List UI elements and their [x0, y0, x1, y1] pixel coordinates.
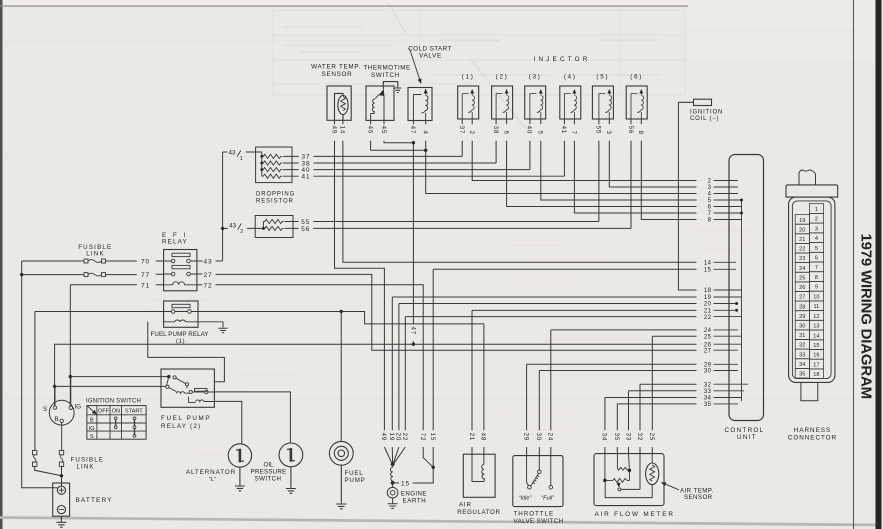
- svg-text:WATER TEMP.: WATER TEMP.: [311, 64, 361, 71]
- resistor R40: [262, 168, 282, 172]
- wire 71/IG vertical: [69, 285, 72, 406]
- svg-text:25: 25: [799, 276, 805, 282]
- labels 37 38 40 41: [301, 154, 310, 181]
- lower wire number labels (rotated): [380, 433, 655, 441]
- svg-text:18: 18: [704, 288, 712, 294]
- label fuel pump relay 2: [161, 415, 211, 430]
- wire 5 + row 5: [541, 119, 697, 200]
- fusible link F3 (left): [33, 450, 62, 475]
- svg-text:AIR FLOW METER: AIR FLOW METER: [595, 511, 675, 518]
- battery feed vertical: [20, 261, 57, 488]
- svg-text:32: 32: [636, 433, 643, 441]
- ignition coil symbol: [678, 99, 711, 105]
- svg-text:20: 20: [704, 302, 712, 308]
- svg-text:6: 6: [815, 256, 818, 262]
- wire 15 + row 15: [413, 269, 697, 483]
- svg-text:5: 5: [815, 246, 818, 252]
- svg-text:SENSOR: SENSOR: [322, 71, 353, 78]
- svg-text:ON: ON: [112, 408, 120, 414]
- svg-text:14: 14: [704, 261, 712, 267]
- svg-text:UNIT: UNIT: [737, 434, 757, 441]
- svg-text:4: 4: [708, 192, 712, 198]
- svg-text:B: B: [90, 418, 94, 424]
- svg-text:26: 26: [799, 285, 805, 291]
- dropping resistor block 1: [256, 147, 565, 183]
- wire 35 + row 35: [617, 404, 696, 454]
- svg-text:ENGINE: ENGINE: [401, 490, 427, 497]
- svg-text:S: S: [90, 434, 94, 440]
- label dropping resistor: [256, 192, 295, 205]
- svg-text:11: 11: [813, 304, 819, 310]
- label 43/2: [229, 222, 243, 235]
- injector 1: [458, 86, 479, 119]
- FP relay 1 coil to FP relay 2 link: [148, 322, 225, 382]
- wire 70 + fuse F1: [22, 259, 164, 263]
- wire 49: [335, 120, 385, 430]
- alternator G1: [228, 444, 251, 491]
- wire 38: [495, 119, 497, 163]
- resistor R41: [262, 174, 282, 178]
- label EFI relay: [162, 232, 188, 246]
- svg-text:24: 24: [799, 266, 805, 272]
- S feed to FP relay 2: [55, 385, 166, 387]
- label harness connector: [788, 427, 837, 442]
- junction dots on bus: [260, 155, 263, 158]
- injector 6: [626, 86, 647, 119]
- label cold start valve + leader: [408, 45, 451, 59]
- bottom scan band: [0, 518, 883, 526]
- label alternator: [186, 469, 236, 483]
- page left dark edge: [0, 0, 3, 529]
- svg-text:“Idle”: “Idle”: [519, 495, 533, 501]
- svg-text:33: 33: [624, 433, 631, 441]
- battery BT1: [53, 483, 70, 527]
- control unit U-CU: [729, 155, 764, 421]
- wiper arrow + circle: [617, 482, 620, 487]
- junction 47-row26: [412, 343, 415, 346]
- label air temp sensor + leader: [662, 483, 679, 490]
- svg-text:14: 14: [339, 126, 346, 134]
- air regulator U-AR: [463, 454, 495, 497]
- wire 56: [630, 119, 632, 228]
- svg-text:(3): (3): [529, 74, 542, 81]
- row 37 out: [283, 155, 462, 157]
- label fuel pump relay 1: [151, 331, 209, 345]
- svg-text:RELAY: RELAY: [162, 239, 188, 246]
- fuel pump M1: [329, 441, 353, 508]
- svg-text:27: 27: [204, 272, 213, 279]
- svg-text:77: 77: [141, 272, 150, 279]
- svg-text:VALVE: VALVE: [419, 52, 442, 59]
- control unit pin numbers: [704, 179, 712, 408]
- resistor R37: [262, 154, 282, 158]
- label fuel pump: [345, 470, 366, 484]
- lower resistor: [605, 472, 630, 482]
- throttle valve switch SW-TVS: [513, 456, 563, 507]
- water temp sensor U-WTS: [327, 86, 351, 120]
- oil pressure switch S-OIL: [279, 443, 303, 493]
- labels Idle Full: [519, 495, 556, 501]
- svg-text:21: 21: [704, 309, 712, 315]
- svg-text:45: 45: [380, 126, 387, 134]
- svg-text:INJECTOR: INJECTOR: [534, 56, 591, 63]
- svg-text:PUMP: PUMP: [345, 477, 366, 484]
- wire 71: [70, 284, 163, 286]
- engine earth ring: [387, 487, 398, 498]
- svg-text:(4): (4): [564, 74, 577, 81]
- svg-text:IG: IG: [89, 426, 95, 432]
- row 41 out: [283, 175, 565, 177]
- top border line: [0, 5, 688, 7]
- svg-text:23: 23: [799, 256, 805, 262]
- wire 48 drop: [483, 324, 485, 454]
- svg-text:FUEL PUMP: FUEL PUMP: [161, 415, 211, 422]
- svg-text:7: 7: [570, 131, 577, 135]
- thermotime switch U-TTS: [366, 82, 398, 121]
- svg-text:40: 40: [526, 126, 533, 134]
- svg-text:4: 4: [815, 236, 818, 242]
- svg-text:30: 30: [799, 324, 805, 330]
- wire 14 + row 14: [343, 120, 697, 262]
- row 40 out: [283, 169, 530, 171]
- wire 33 + row 33: [629, 391, 697, 454]
- svg-text:1: 1: [815, 207, 818, 213]
- svg-text:CONNECTOR: CONNECTOR: [788, 434, 837, 441]
- label throttle valve switch: [514, 510, 564, 525]
- svg-text:28: 28: [799, 304, 805, 310]
- svg-text:5: 5: [708, 198, 712, 204]
- wire 55: [598, 119, 600, 222]
- svg-text:32: 32: [704, 382, 712, 388]
- fuel pump relay 1 U-FPR1: [164, 301, 223, 327]
- svg-text:20: 20: [799, 227, 805, 233]
- svg-text:2: 2: [240, 229, 243, 235]
- junction 45-47: [412, 141, 415, 144]
- svg-text:4: 4: [422, 131, 429, 135]
- svg-text:DROPPING: DROPPING: [256, 192, 295, 198]
- svg-text:13: 13: [813, 324, 819, 330]
- label control unit: [725, 427, 765, 441]
- resistor R55: [263, 219, 283, 223]
- svg-text:27: 27: [704, 348, 712, 354]
- svg-text:22: 22: [401, 433, 408, 441]
- svg-text:33: 33: [704, 389, 712, 395]
- svg-text:3: 3: [708, 185, 712, 191]
- label 43/1: [229, 150, 243, 162]
- label water temp sensor: [311, 64, 361, 79]
- row 38 out: [283, 162, 496, 164]
- row 55 out: [285, 221, 599, 223]
- wire 49 tail: [384, 447, 392, 464]
- svg-text:15: 15: [813, 343, 819, 349]
- wire ignition coil to row 18: [678, 102, 696, 290]
- svg-text:(1): (1): [462, 74, 475, 81]
- svg-text:S: S: [43, 406, 47, 413]
- svg-text:34: 34: [601, 433, 608, 441]
- svg-text:49: 49: [330, 126, 337, 134]
- wire 41: [563, 119, 565, 176]
- svg-text:COIL (−): COIL (−): [690, 116, 719, 122]
- IG feed to FP relay 2: [70, 376, 169, 378]
- svg-text:15: 15: [704, 268, 712, 274]
- wire 32 + row 32: [640, 384, 697, 454]
- svg-text:(5): (5): [596, 74, 609, 81]
- ground (thermotime): [394, 88, 401, 93]
- svg-text:41: 41: [301, 174, 310, 181]
- svg-text:AIR: AIR: [459, 501, 472, 508]
- svg-text:PRESSURE: PRESSURE: [251, 469, 287, 476]
- wire 3 + row 3: [609, 119, 696, 187]
- svg-text:19: 19: [799, 218, 805, 224]
- svg-text:“L”: “L”: [209, 477, 216, 483]
- S wire vertical + row 26 long line: [53, 344, 697, 406]
- svg-text:72: 72: [204, 283, 213, 290]
- fuel pump relay 2 U-FPR2: [161, 369, 214, 407]
- svg-text:31: 31: [799, 333, 805, 339]
- svg-text:OIL: OIL: [264, 462, 275, 469]
- control unit pin stubs: [714, 181, 749, 404]
- svg-text:22: 22: [704, 315, 712, 321]
- wire 7 + row 7: [574, 119, 696, 213]
- right black bar: [876, 0, 882, 529]
- svg-text:43: 43: [204, 259, 213, 266]
- injector 2: [492, 86, 513, 119]
- svg-text:1979 WIRING DIAGRAM: 1979 WIRING DIAGRAM: [858, 234, 875, 399]
- svg-text:35: 35: [799, 372, 805, 378]
- svg-text:1: 1: [240, 156, 243, 162]
- harness connector J1: [786, 170, 838, 401]
- injector 5: [592, 86, 613, 119]
- label ignition coil: [690, 109, 723, 122]
- row 56 out: [285, 227, 632, 229]
- top wire number labels (rotated): [330, 126, 644, 135]
- svg-text:43: 43: [229, 222, 237, 229]
- wire 27 run to control unit: [197, 274, 697, 350]
- wire 24 + row 24: [551, 330, 697, 456]
- svg-text:17: 17: [813, 362, 819, 368]
- svg-text:FUEL PUMP RELAY: FUEL PUMP RELAY: [151, 331, 209, 338]
- wire 43 riser: [221, 152, 256, 261]
- FP relay 1 contact feed line: [35, 310, 484, 324]
- svg-text:19: 19: [704, 295, 712, 301]
- fusible link label (top): [78, 244, 112, 258]
- svg-text:30: 30: [535, 433, 542, 441]
- lower row wires: [384, 269, 696, 483]
- wire 45: [384, 120, 412, 142]
- wire 2 + row 2: [472, 119, 696, 181]
- svg-text:32: 32: [799, 343, 805, 349]
- air flow meter U-AFM: [594, 454, 664, 506]
- svg-text:(6): (6): [630, 74, 643, 81]
- svg-text:47: 47: [409, 327, 416, 335]
- svg-text:16: 16: [813, 353, 819, 359]
- svg-text:BATTERY: BATTERY: [76, 497, 113, 504]
- svg-text:COLD START: COLD START: [408, 45, 451, 52]
- svg-text:56: 56: [301, 226, 310, 233]
- wire 77 + fuse F2: [22, 273, 164, 277]
- svg-text:7: 7: [815, 265, 818, 271]
- wire 30 + row 30: [539, 371, 696, 456]
- fusible link F4 (right): [59, 450, 63, 486]
- svg-text:SENSOR: SENSOR: [684, 494, 713, 501]
- svg-text:VALVE SWITCH: VALVE SWITCH: [514, 518, 564, 525]
- wire 47: [412, 121, 414, 344]
- svg-text:24: 24: [547, 433, 554, 441]
- svg-text:THERMOTIME: THERMOTIME: [363, 65, 410, 72]
- svg-text:RESISTOR: RESISTOR: [256, 198, 294, 204]
- svg-text:34: 34: [704, 396, 712, 402]
- svg-text:29: 29: [799, 314, 805, 320]
- wire 6 + row 6: [507, 119, 697, 207]
- svg-text:B: B: [55, 416, 59, 423]
- svg-text:21: 21: [468, 433, 475, 441]
- cold start valve U-CSV: [408, 88, 432, 121]
- svg-text:6: 6: [708, 205, 712, 211]
- svg-text:15: 15: [429, 433, 436, 441]
- labels 55 56: [301, 219, 310, 233]
- wire 8 + row 8: [641, 119, 696, 220]
- resistor R38: [262, 161, 282, 165]
- label engine earth: [401, 490, 427, 504]
- svg-text:6: 6: [502, 131, 509, 135]
- svg-text:37: 37: [458, 126, 465, 134]
- fuel pump drop wire: [340, 312, 342, 442]
- svg-text:38: 38: [492, 126, 499, 134]
- svg-text:5: 5: [537, 131, 544, 135]
- svg-text:49: 49: [380, 433, 387, 441]
- svg-text:43: 43: [229, 150, 237, 157]
- svg-text:THROTTLE: THROTTLE: [514, 510, 555, 517]
- svg-text:24: 24: [704, 328, 712, 334]
- svg-text:29: 29: [522, 433, 529, 441]
- svg-text:3: 3: [815, 226, 818, 232]
- label fusible link (lower): [71, 457, 105, 471]
- wire 29 + row 29: [527, 364, 697, 456]
- svg-text:ALTERNATOR: ALTERNATOR: [186, 469, 236, 476]
- svg-text:REGULATOR: REGULATOR: [457, 509, 500, 516]
- svg-text:(2): (2): [496, 74, 509, 81]
- wire 34 + row 34: [605, 398, 697, 454]
- svg-text:RELAY (2): RELAY (2): [161, 423, 201, 430]
- svg-text:27: 27: [799, 295, 805, 301]
- svg-text:IG: IG: [75, 404, 82, 411]
- air temp sensor RT1: [646, 463, 659, 485]
- svg-text:7: 7: [708, 211, 712, 217]
- wire 72 run: [197, 285, 433, 468]
- label oil pressure switch: [251, 462, 287, 483]
- svg-text:2: 2: [815, 217, 818, 223]
- wire 33 inside: [628, 454, 631, 469]
- injector 4: [560, 86, 581, 119]
- engine earth junction + coil: [387, 462, 412, 508]
- svg-text:IGNITION: IGNITION: [690, 109, 723, 115]
- svg-text:EARTH: EARTH: [403, 498, 427, 505]
- svg-text:10: 10: [813, 294, 819, 300]
- label thermotime switch: [363, 65, 410, 80]
- svg-text:22: 22: [799, 247, 805, 253]
- svg-text:HARNESS: HARNESS: [794, 427, 831, 434]
- svg-text:20: 20: [395, 433, 402, 441]
- svg-text:34: 34: [799, 362, 805, 368]
- wire 21 + row 21: [472, 310, 697, 454]
- dropping resistor block 2: [255, 216, 631, 238]
- svg-text:“Full”: “Full”: [541, 495, 555, 501]
- svg-text:30: 30: [704, 369, 712, 375]
- top wires: [335, 102, 697, 430]
- svg-text:33: 33: [799, 352, 805, 358]
- svg-text:SWITCH: SWITCH: [255, 476, 282, 483]
- svg-text:9: 9: [815, 285, 818, 291]
- ignition switch table: [87, 406, 146, 440]
- svg-text:8: 8: [815, 275, 818, 281]
- svg-text:CONTROL: CONTROL: [725, 427, 765, 434]
- wire 22 + row 22: [394, 317, 697, 464]
- svg-text:72: 72: [419, 433, 426, 441]
- svg-text:21: 21: [799, 237, 805, 243]
- svg-text:56: 56: [627, 126, 634, 134]
- svg-text:25: 25: [648, 433, 655, 441]
- svg-text:14: 14: [813, 333, 819, 339]
- svg-text:18: 18: [813, 372, 819, 378]
- svg-text:15: 15: [401, 481, 410, 488]
- wire 37: [461, 119, 463, 156]
- svg-text:70: 70: [141, 259, 150, 266]
- svg-text:19: 19: [388, 433, 395, 441]
- junction 46-4: [424, 149, 427, 152]
- svg-text:12: 12: [813, 314, 819, 320]
- svg-text:2: 2: [708, 179, 712, 185]
- ignition switch SW-IGN: [49, 377, 74, 451]
- label air regulator: [457, 501, 500, 516]
- svg-text:2: 2: [468, 131, 475, 135]
- svg-text:46: 46: [366, 126, 373, 134]
- left feed vertical to FP relay1: [34, 312, 36, 451]
- svg-text:35: 35: [613, 433, 620, 441]
- svg-text:71: 71: [141, 283, 150, 290]
- svg-text:LINK: LINK: [77, 463, 95, 470]
- resistor R56: [263, 226, 283, 230]
- svg-text:48: 48: [480, 433, 487, 441]
- table texts: [89, 408, 144, 440]
- svg-text:41: 41: [560, 126, 567, 134]
- BLEEDTHROUGH: [60, 2, 770, 455]
- svg-text:8: 8: [637, 131, 644, 135]
- injector 3: [525, 86, 546, 119]
- ground (FP relay 1): [219, 322, 228, 333]
- wire 20 + row 20: [393, 304, 696, 464]
- wire 4 + row 4: [426, 121, 697, 194]
- EFI relay U-EFI: [164, 250, 197, 291]
- svg-text:LINK: LINK: [86, 251, 105, 258]
- svg-text:START: START: [125, 408, 143, 414]
- svg-text:47: 47: [409, 126, 416, 134]
- wire 34 inside: [604, 454, 606, 480]
- svg-text:SWITCH: SWITCH: [371, 72, 400, 79]
- svg-text:8: 8: [708, 218, 712, 224]
- wire 40: [529, 119, 531, 170]
- svg-text:35: 35: [704, 402, 712, 408]
- right margin thin rule: [853, 0, 855, 529]
- svg-text:IGNITION SWITCH: IGNITION SWITCH: [86, 399, 141, 405]
- wire 35 inside + resistor top: [616, 454, 618, 469]
- wire 25 + row 25: [652, 336, 696, 454]
- svg-text:3: 3: [605, 131, 612, 135]
- wire 19 + row 19: [392, 297, 696, 463]
- wire FPR2 to oil pressure switch: [208, 392, 291, 443]
- svg-text:55: 55: [595, 126, 602, 134]
- wire 46: [371, 120, 425, 150]
- wire FPR2 to alternator: [204, 401, 242, 443]
